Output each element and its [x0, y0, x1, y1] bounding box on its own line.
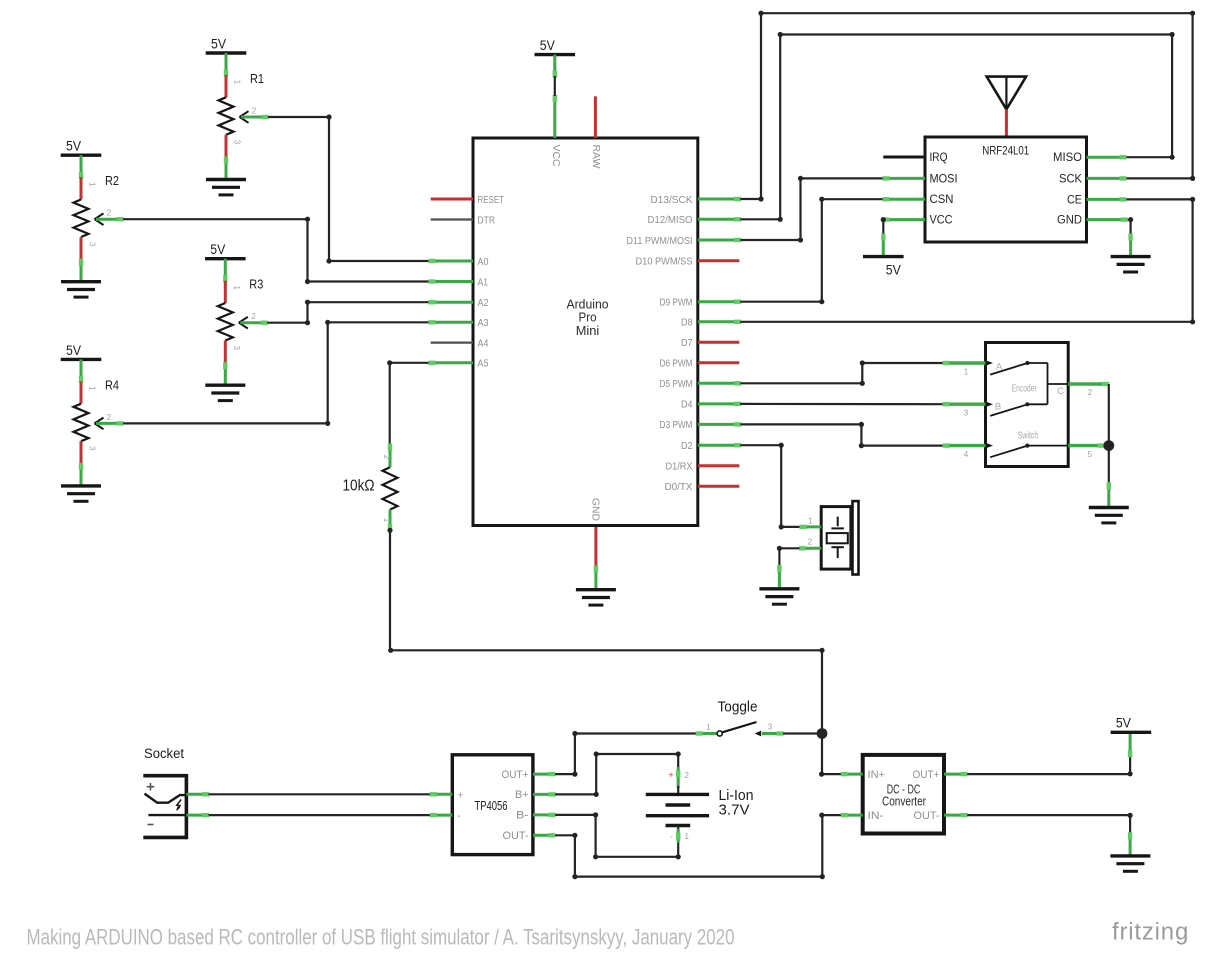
svg-text:A5: A5 — [478, 358, 489, 370]
svg-text:1: 1 — [808, 517, 813, 526]
ground for DC-DC output — [1110, 856, 1150, 871]
svg-text:OUT+: OUT+ — [502, 769, 529, 781]
pin GND — [589, 498, 601, 567]
svg-text:CE: CE — [1067, 194, 1082, 206]
svg-text:MOSI: MOSI — [930, 173, 958, 185]
wire C to switch node — [1108, 384, 1110, 446]
svg-text:3: 3 — [964, 409, 969, 418]
op-amp U1 Arduino Pro Mini — [473, 138, 698, 526]
pin D0/TX — [665, 481, 740, 493]
svg-text:1: 1 — [685, 832, 690, 841]
svg-text:2: 2 — [1088, 388, 1093, 397]
potentiometer R4 — [74, 359, 124, 486]
svg-text:Socket: Socket — [144, 746, 184, 761]
svg-text:2: 2 — [251, 312, 256, 321]
svg-text:R3: R3 — [249, 277, 263, 292]
pin 1 encoder A — [943, 361, 986, 377]
pin TP plus — [430, 792, 453, 796]
pin RESET — [431, 194, 505, 206]
svg-text:RAW: RAW — [590, 145, 602, 169]
battery BT1 Li-Ion — [646, 767, 754, 843]
pin MISO — [1087, 155, 1127, 159]
switch S1 Toggle — [696, 699, 784, 737]
svg-text:C: C — [1057, 386, 1064, 397]
pin OUT+ dcdc — [944, 772, 968, 776]
pin D10 PWM/SS — [636, 256, 740, 268]
pin A5 — [429, 358, 489, 370]
wire OUT- to DC-DC IN- — [555, 813, 841, 880]
svg-text:Switch: Switch — [1018, 431, 1039, 442]
pin D1/RX — [666, 461, 740, 473]
svg-text:4: 4 — [964, 450, 969, 459]
svg-text:A3: A3 — [478, 317, 489, 329]
5V supply for DC-DC output — [1111, 715, 1152, 733]
wire D3 to encoder switch pin 4 — [740, 422, 943, 448]
potentiometer R1 — [219, 53, 269, 180]
resistor R5 10k — [343, 444, 398, 531]
ground for piezo — [759, 589, 799, 604]
svg-text:D10 PWM/SS: D10 PWM/SS — [636, 256, 693, 268]
pin D12/MISO — [648, 214, 742, 226]
pin socket plus — [186, 792, 209, 796]
ground for encoder — [1089, 508, 1129, 523]
svg-text:5V: 5V — [66, 342, 82, 358]
pin IRQ unconnected wire stub — [883, 156, 925, 159]
svg-text:-: - — [670, 832, 673, 841]
svg-text:5V: 5V — [540, 37, 556, 53]
svg-text:VCC: VCC — [550, 145, 562, 167]
svg-text:D9 PWM: D9 PWM — [660, 297, 693, 309]
wire B+ to battery plus — [555, 751, 681, 797]
svg-text:RESET: RESET — [478, 194, 505, 206]
svg-text:3: 3 — [232, 345, 241, 350]
ground for R4 — [61, 486, 101, 501]
module U4 DC-DC converter — [863, 755, 944, 834]
pin ANT red stub — [1005, 109, 1008, 137]
svg-text:D7: D7 — [681, 337, 693, 349]
svg-text:D1/RX: D1/RX — [666, 461, 693, 473]
pin D7 — [681, 337, 739, 349]
pin RAW — [590, 96, 602, 168]
svg-text:5V: 5V — [210, 241, 226, 257]
5V supply for VCC — [535, 37, 576, 55]
pin D3 PWM — [660, 419, 742, 431]
svg-text:+: + — [668, 770, 673, 780]
pin D8 — [681, 317, 741, 329]
svg-text:D4: D4 — [681, 399, 693, 411]
svg-text:IN+: IN+ — [868, 769, 886, 781]
wire node to DC-DC IN+ — [819, 734, 841, 777]
wire D9 to NRF CSN — [740, 197, 883, 305]
svg-text:R4: R4 — [105, 377, 119, 392]
pin B- — [533, 813, 556, 817]
svg-text:-: - — [457, 810, 461, 822]
svg-text:MISO: MISO — [1053, 152, 1082, 164]
wire socket plus to TP4056 plus — [209, 793, 431, 795]
svg-text:2: 2 — [252, 107, 257, 116]
wire GND to ground — [1128, 217, 1133, 257]
svg-text:1: 1 — [706, 723, 711, 732]
connector J1 Socket — [143, 746, 186, 839]
svg-text:IN-: IN- — [868, 810, 884, 822]
pin OUT- — [533, 833, 556, 837]
svg-text:DTR: DTR — [478, 214, 496, 226]
svg-text:1: 1 — [382, 518, 391, 523]
svg-text:1: 1 — [232, 285, 241, 290]
ground for R3 — [205, 385, 245, 400]
svg-text:1: 1 — [88, 182, 97, 187]
svg-text:D5 PWM: D5 PWM — [660, 378, 693, 390]
svg-text:SCK: SCK — [1059, 173, 1082, 185]
svg-text:D11 PWM/MOSI: D11 PWM/MOSI — [627, 235, 693, 247]
junction node battery switch — [817, 728, 828, 739]
svg-text:fritzing: fritzing — [1112, 918, 1189, 945]
svg-text:+: + — [457, 789, 463, 801]
wire R3 wiper to A2 — [267, 300, 430, 326]
pin 5 encoder switch — [1068, 443, 1104, 459]
svg-text:NRF24L01: NRF24L01 — [982, 146, 1029, 158]
svg-text:TP4056: TP4056 — [475, 799, 508, 813]
potentiometer R2 — [74, 155, 124, 282]
svg-text:GND: GND — [1057, 215, 1082, 227]
svg-text:2: 2 — [107, 413, 112, 422]
wire A5 to resistor R5 top — [387, 360, 430, 444]
svg-text:B-: B- — [516, 810, 529, 822]
wire OUT+ to 5V — [967, 732, 1132, 776]
pin A1 — [429, 276, 489, 288]
wire D8 to NRF CE — [740, 197, 1195, 325]
pin D6 PWM — [660, 358, 740, 370]
pin 1 piezo — [800, 517, 822, 530]
pin GND NRF — [1087, 217, 1129, 221]
pin A4 — [431, 337, 489, 349]
svg-text:3.7V: 3.7V — [719, 802, 750, 819]
svg-text:D12/MISO: D12/MISO — [648, 214, 693, 226]
svg-text:D3 PWM: D3 PWM — [660, 419, 693, 431]
pin socket minus — [186, 813, 209, 817]
5V supply for R4 — [61, 342, 102, 360]
svg-text:1: 1 — [88, 386, 97, 391]
wire toggle pin3 to node — [783, 732, 822, 734]
wire D2 to piezo pin 1 — [740, 443, 800, 530]
svg-text:2: 2 — [382, 455, 391, 460]
svg-text:5: 5 — [1088, 450, 1093, 459]
wire R1 wiper to A0 — [268, 114, 431, 263]
svg-text:5V: 5V — [886, 262, 902, 278]
svg-text:B+: B+ — [515, 789, 529, 801]
pin B+ — [533, 792, 556, 796]
wire D4 to encoder B — [740, 403, 943, 406]
5V supply for R3 — [205, 241, 246, 259]
pin A3 — [429, 317, 489, 329]
svg-text:VCC: VCC — [930, 215, 953, 227]
svg-text:D6 PWM: D6 PWM — [660, 358, 693, 370]
antenna ANT1 — [987, 77, 1026, 110]
wire R2 wiper to A1 — [123, 217, 431, 285]
wire OUT- to ground — [967, 813, 1132, 856]
svg-text:3: 3 — [768, 723, 773, 732]
svg-text:A2: A2 — [478, 297, 489, 309]
svg-text:10kΩ: 10kΩ — [343, 478, 375, 495]
svg-text:CSN: CSN — [930, 194, 954, 206]
pin IN- — [841, 813, 863, 817]
svg-text:2: 2 — [808, 538, 813, 547]
svg-text:2: 2 — [685, 771, 690, 780]
module U3 TP4056 — [452, 755, 533, 855]
wire encoder common to ground — [1107, 446, 1111, 508]
pin D2 — [681, 440, 741, 452]
piezo buzzer LS1 — [821, 501, 858, 574]
wire OUT+ to toggle pin 1 — [555, 731, 696, 777]
5V supply for NRF — [863, 257, 904, 278]
ground for Arduino GND — [576, 566, 616, 606]
pin D13/SCK — [651, 194, 742, 206]
svg-text:D13/SCK: D13/SCK — [651, 194, 693, 206]
pin DTR — [431, 214, 496, 226]
svg-text:A0: A0 — [478, 256, 489, 268]
wire R5 bottom to battery switch node — [387, 528, 824, 734]
module U2 NRF24L01 — [925, 137, 1087, 242]
wire R4 wiper to A3 — [123, 320, 431, 426]
pin SCK — [1087, 176, 1127, 180]
pin CE — [1087, 197, 1127, 201]
svg-text:5V: 5V — [1116, 715, 1132, 731]
svg-text:5V: 5V — [66, 138, 82, 154]
pin D4 — [681, 399, 741, 411]
pin OUT+ — [533, 772, 556, 776]
svg-text:OUT+: OUT+ — [913, 769, 940, 781]
pin D5 PWM — [660, 378, 742, 390]
pin OUT- dcdc — [944, 813, 968, 817]
svg-text:GND: GND — [589, 498, 601, 521]
pin MOSI — [883, 176, 926, 180]
svg-text:D0/TX: D0/TX — [665, 481, 693, 493]
pin 3 encoder B — [943, 402, 986, 418]
wire D13 to NRF SCK — [740, 11, 1195, 202]
svg-text:Toggle: Toggle — [718, 699, 758, 716]
junction node encoder common — [1103, 440, 1114, 451]
wire VCC to 5V — [881, 217, 886, 257]
svg-text:R2: R2 — [105, 173, 119, 188]
pin A0 — [429, 256, 489, 268]
svg-text:OUT-: OUT- — [503, 830, 529, 842]
ground for R2 — [61, 282, 101, 297]
svg-text:3: 3 — [88, 242, 97, 247]
svg-text:A4: A4 — [478, 337, 489, 349]
ground for R1 — [206, 180, 246, 195]
svg-text:5V: 5V — [211, 35, 227, 51]
svg-text:IRQ: IRQ — [930, 152, 948, 164]
potentiometer R3 — [218, 259, 268, 386]
5V supply for R1 — [206, 35, 247, 53]
5V supply for R2 — [61, 138, 102, 156]
wire D5 to encoder A — [740, 360, 943, 386]
svg-text:OUT-: OUT- — [914, 810, 940, 822]
svg-text:D8: D8 — [681, 317, 693, 329]
pin IN+ — [841, 772, 863, 776]
wire D12 to NRF MISO — [740, 32, 1174, 222]
pin TP minus — [430, 813, 453, 817]
svg-text:1: 1 — [964, 368, 969, 377]
pin D11 PWM/MOSI — [627, 235, 742, 247]
pin 2 piezo — [799, 538, 821, 551]
svg-text:1: 1 — [233, 80, 242, 85]
wire D11 to NRF MOSI — [740, 176, 883, 243]
pin VCC — [550, 95, 562, 167]
pin 4 encoder switch — [943, 443, 986, 459]
pin CSN — [883, 197, 926, 201]
pin A2 — [429, 297, 489, 309]
wire B- to battery minus — [555, 812, 681, 859]
svg-text:Mini: Mini — [576, 323, 600, 338]
svg-text:2: 2 — [107, 209, 112, 218]
svg-text:Making ARDUINO based RC contro: Making ARDUINO based RC controller of US… — [27, 925, 735, 950]
ground for NRF — [1111, 257, 1151, 272]
wire piezo pin2 to ground — [777, 546, 800, 589]
rotary encoder SW1 — [986, 343, 1069, 467]
wire 5V to VCC — [553, 55, 557, 96]
svg-text:A1: A1 — [478, 276, 489, 288]
svg-text:3: 3 — [233, 140, 242, 145]
svg-text:3: 3 — [88, 446, 97, 451]
svg-text:B: B — [995, 402, 1001, 413]
pin D9 PWM — [660, 297, 742, 309]
svg-text:D2: D2 — [681, 440, 693, 452]
wire socket minus to TP4056 minus — [209, 814, 431, 816]
svg-text:Converter: Converter — [882, 795, 926, 809]
pin VCC NRF — [883, 217, 926, 221]
pin 2 encoder C — [1068, 382, 1109, 397]
svg-text:Encoder: Encoder — [1012, 384, 1037, 395]
svg-text:R1: R1 — [250, 71, 264, 86]
